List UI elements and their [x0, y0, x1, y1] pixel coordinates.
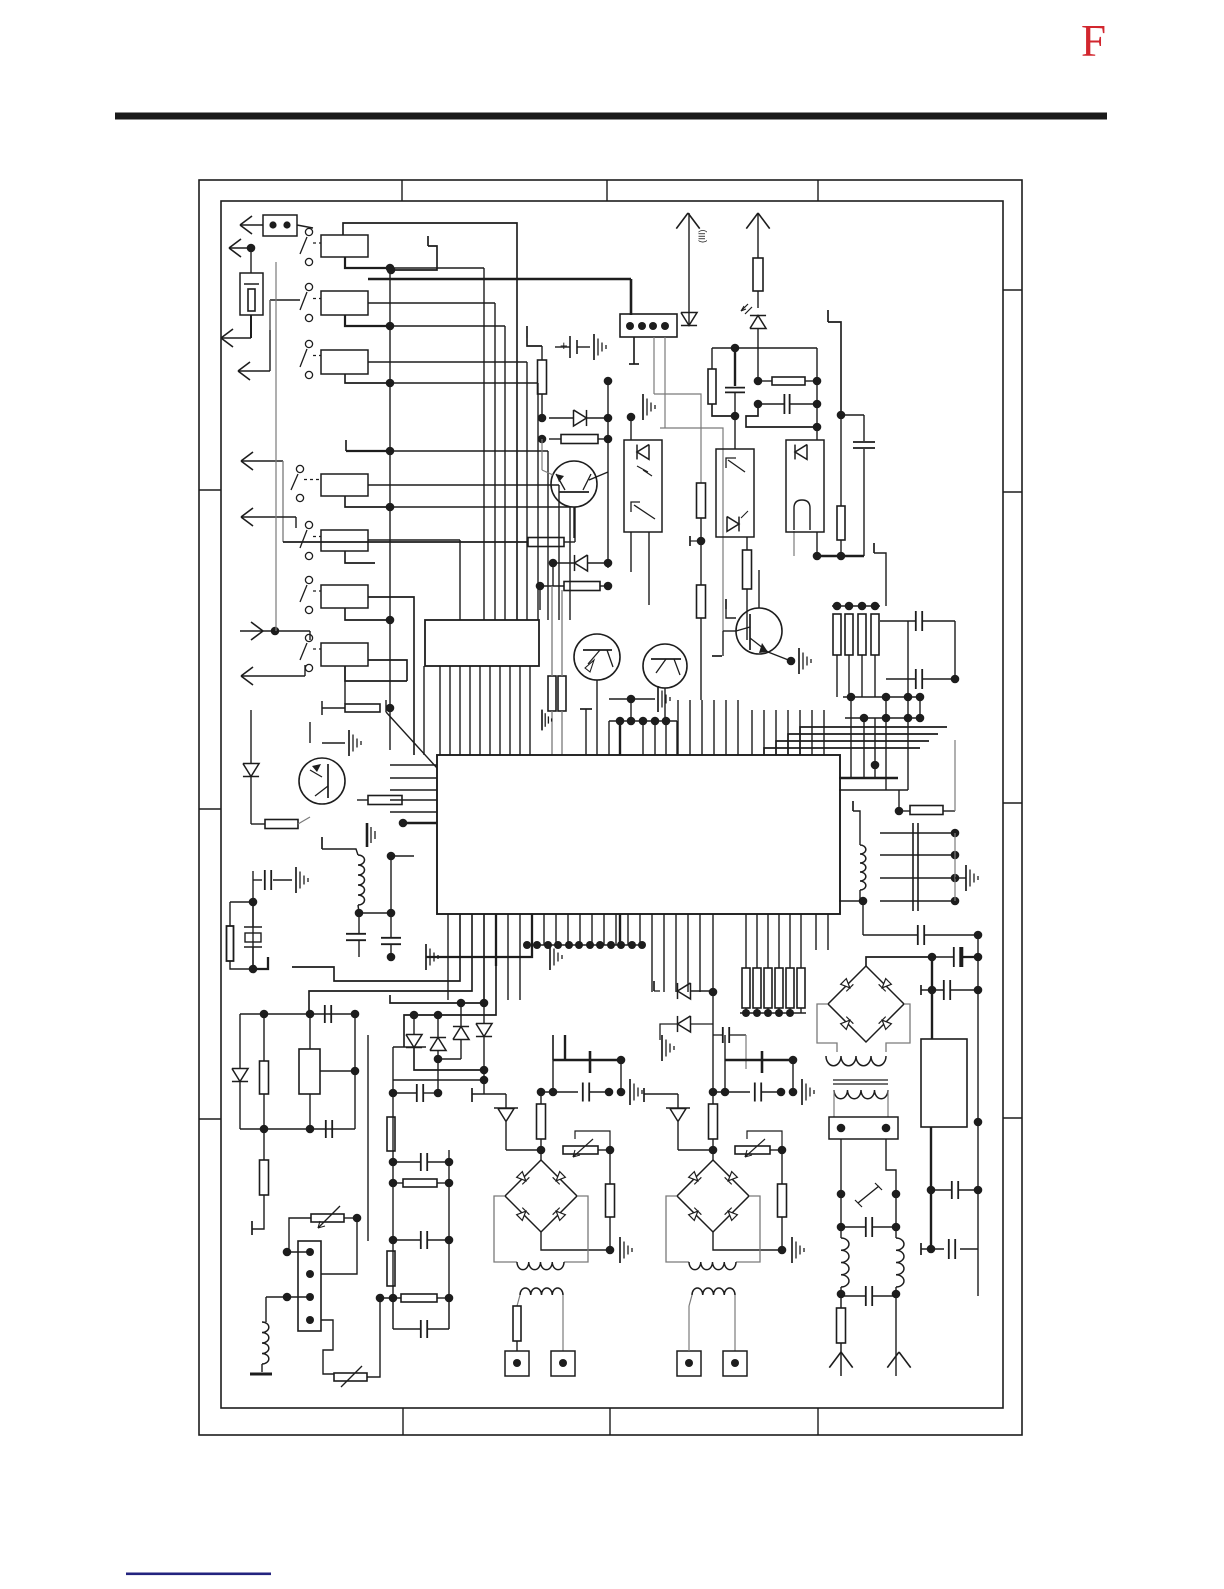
- svg-text:(III): (III): [697, 230, 707, 244]
- svg-text:F: F: [1081, 16, 1106, 66]
- svg-text:+: +: [560, 338, 568, 353]
